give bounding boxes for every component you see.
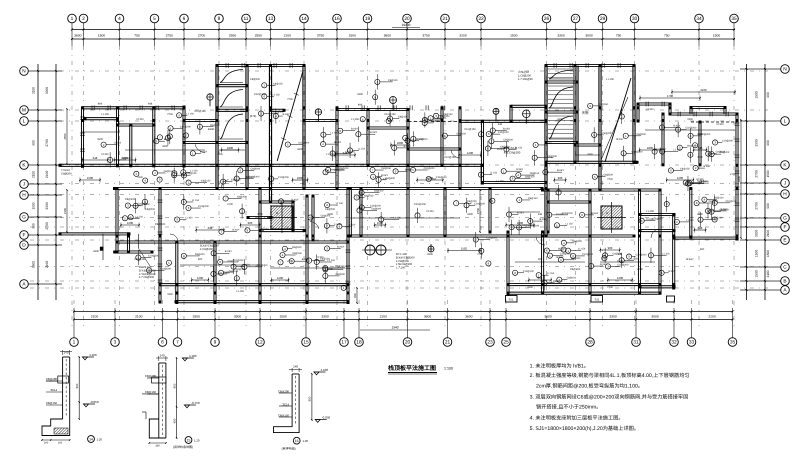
svg-text:3300: 3300 (557, 118, 563, 121)
svg-text:C10@200: C10@200 (273, 111, 284, 114)
svg-text:C10@150: C10@150 (384, 113, 396, 116)
svg-text:L1 150: L1 150 (631, 257, 639, 260)
svg-text:L1 150: L1 150 (136, 215, 144, 218)
svg-text:D: D (22, 243, 26, 249)
svg-text:G: G (783, 216, 787, 222)
svg-text:h=100: h=100 (136, 118, 144, 121)
svg-text:C10@150: C10@150 (444, 156, 456, 159)
svg-text:1500: 1500 (527, 286, 533, 289)
svg-text:3300: 3300 (162, 145, 168, 148)
svg-text:648: 648 (208, 226, 213, 230)
svg-text:2700: 2700 (607, 286, 613, 289)
svg-text:B:X&Y: B:X&Y (370, 131, 377, 134)
svg-text:C8@200: C8@200 (278, 389, 290, 393)
svg-text:21: 21 (445, 340, 451, 346)
svg-text:C8@150: C8@150 (680, 167, 690, 170)
svg-text:900: 900 (32, 223, 36, 229)
svg-text:C8@200: C8@200 (325, 208, 336, 211)
svg-text:B:X&Y: B:X&Y (334, 141, 341, 144)
svg-text:B:X&Y: B:X&Y (348, 223, 355, 226)
svg-text:2700: 2700 (287, 260, 293, 263)
svg-text:1500: 1500 (32, 202, 36, 209)
svg-text:648: 648 (538, 276, 543, 280)
svg-text:C10@200: C10@200 (726, 200, 737, 203)
svg-text:2700: 2700 (755, 202, 759, 210)
svg-text:2100: 2100 (766, 230, 770, 237)
svg-text:1500: 1500 (587, 153, 593, 156)
svg-text:L1 150: L1 150 (114, 142, 122, 145)
svg-text:11: 11 (244, 16, 249, 22)
svg-text:B:X&Y: B:X&Y (668, 270, 675, 273)
svg-text:L1 150: L1 150 (686, 219, 694, 222)
svg-text:C8@150: C8@150 (716, 151, 726, 154)
svg-text:1: 1 (71, 16, 74, 22)
svg-text:3750: 3750 (317, 34, 325, 38)
svg-text:L1 150: L1 150 (328, 259, 336, 262)
svg-text:3300: 3300 (45, 202, 49, 210)
svg-text:1200: 1200 (197, 276, 204, 280)
svg-text:-0.050: -0.050 (90, 400, 99, 404)
svg-text:C8@200: C8@200 (372, 207, 382, 210)
svg-text:C8@200: C8@200 (339, 167, 349, 170)
svg-text:140: 140 (159, 354, 164, 358)
svg-text:C8@200: C8@200 (155, 223, 166, 226)
svg-text:1500: 1500 (755, 250, 759, 258)
svg-text:32: 32 (671, 340, 677, 346)
svg-text:1200: 1200 (677, 176, 684, 180)
svg-text:1500: 1500 (377, 221, 384, 225)
svg-text:486: 486 (98, 103, 103, 106)
svg-text:1500: 1500 (497, 148, 503, 151)
svg-text:140: 140 (293, 365, 298, 369)
svg-text:19: 19 (365, 16, 371, 22)
svg-text:900: 900 (538, 258, 543, 261)
svg-text:1500: 1500 (279, 314, 287, 318)
svg-text:1500: 1500 (755, 270, 759, 278)
svg-text:35: 35 (731, 16, 737, 22)
svg-text:L1 150: L1 150 (662, 252, 670, 255)
svg-text:C8@150: C8@150 (335, 265, 345, 268)
svg-text:2100: 2100 (380, 314, 388, 318)
svg-text:2700: 2700 (730, 173, 736, 176)
svg-text:1:100: 1:100 (444, 367, 453, 371)
svg-text:2550: 2550 (63, 133, 67, 140)
svg-text:21: 21 (442, 16, 448, 22)
svg-text:F: F (23, 233, 26, 239)
svg-text:L1 150: L1 150 (187, 112, 195, 115)
svg-text:900: 900 (558, 176, 563, 180)
svg-text:C8@200: C8@200 (292, 246, 302, 249)
svg-text:L1-150: L1-150 (606, 78, 614, 81)
svg-text:20: 20 (404, 16, 410, 22)
svg-text:C8@200: C8@200 (237, 195, 247, 198)
svg-text:B:X&Y: B:X&Y (557, 169, 564, 172)
svg-text:1500: 1500 (755, 91, 759, 99)
svg-text:33: 33 (689, 340, 695, 346)
svg-text:3300: 3300 (357, 93, 363, 96)
svg-text:1500: 1500 (510, 34, 518, 38)
svg-text:L1 150: L1 150 (547, 272, 555, 275)
svg-text:3300: 3300 (193, 314, 201, 318)
svg-text:1200: 1200 (467, 151, 474, 155)
svg-text:栈顶板平法施工图: 栈顶板平法施工图 (388, 364, 436, 372)
svg-text:2700: 2700 (227, 203, 233, 206)
svg-text:140: 140 (63, 351, 68, 355)
svg-text:L1 150: L1 150 (673, 149, 681, 152)
svg-text:C10@200: C10@200 (257, 264, 268, 267)
svg-text:M: M (22, 108, 26, 114)
svg-text:h=100: h=100 (646, 218, 654, 221)
svg-text:3300: 3300 (327, 213, 333, 216)
svg-text:C8@150: C8@150 (46, 401, 58, 405)
svg-text:C8@150: C8@150 (598, 103, 608, 106)
svg-text:C10@200: C10@200 (198, 205, 209, 208)
svg-text:14: 14 (301, 16, 307, 22)
svg-text:C10@200: C10@200 (160, 267, 171, 270)
svg-text:5: 5 (153, 16, 156, 22)
svg-text:3300: 3300 (697, 133, 703, 136)
svg-text:3600: 3600 (74, 34, 82, 38)
svg-text:C10@200: C10@200 (722, 139, 733, 142)
svg-text:C8@150: C8@150 (530, 172, 540, 175)
svg-text:100: 100 (58, 441, 63, 444)
svg-text:3300: 3300 (737, 175, 741, 182)
svg-text:C8@200: C8@200 (145, 374, 157, 378)
svg-text:B:X&Y: B:X&Y (686, 258, 694, 261)
svg-text:3. 双层双向钢筋网设C6或@200×200双向钢筋网,并与: 3. 双层双向钢筋网设C6或@200×200双向钢筋网,并与受力筋搭接牢固 (530, 393, 689, 400)
svg-text:L1 150: L1 150 (272, 93, 280, 96)
svg-text:1:20: 1:20 (194, 438, 200, 442)
svg-text:3300: 3300 (697, 213, 703, 216)
svg-text:2700: 2700 (476, 207, 480, 214)
svg-text:900: 900 (32, 140, 36, 146)
svg-text:3200: 3200 (459, 34, 467, 38)
svg-text:2100: 2100 (32, 171, 36, 178)
svg-text:C10@200: C10@200 (278, 176, 289, 179)
svg-text:C8@200: C8@200 (440, 115, 450, 118)
svg-text:1200: 1200 (427, 176, 434, 180)
svg-text:C8@200: C8@200 (613, 252, 623, 255)
svg-text:900: 900 (172, 383, 176, 388)
svg-text:900: 900 (766, 92, 770, 98)
svg-text:18: 18 (356, 340, 362, 346)
svg-text:2700: 2700 (45, 139, 49, 147)
svg-text:1500: 1500 (167, 293, 173, 296)
svg-text:16: 16 (295, 439, 299, 443)
svg-text:C8@150: C8@150 (278, 413, 290, 417)
svg-text:C8@200: C8@200 (522, 224, 532, 227)
svg-text:2: 2 (82, 16, 85, 22)
svg-text:3300: 3300 (297, 148, 303, 151)
svg-text:4: 4 (118, 16, 121, 22)
svg-text:C8@150: C8@150 (364, 194, 374, 197)
svg-text:3: 3 (114, 340, 117, 346)
svg-text:B:X&Y: B:X&Y (517, 211, 524, 214)
svg-text:3300: 3300 (467, 213, 473, 216)
svg-text:1200: 1200 (617, 276, 624, 280)
svg-text:C8@150: C8@150 (164, 170, 174, 173)
svg-text:648: 648 (93, 156, 98, 160)
svg-text:L1 150: L1 150 (336, 202, 344, 205)
svg-text:13: 13 (268, 16, 274, 22)
svg-text:H: H (22, 193, 26, 199)
svg-text:N: N (783, 67, 787, 73)
svg-text:B:X&Y: B:X&Y (721, 208, 728, 211)
svg-text:8: 8 (218, 16, 221, 22)
svg-text:C8@200: C8@200 (467, 200, 477, 203)
svg-text:1500: 1500 (87, 176, 94, 180)
svg-text:3600: 3600 (424, 314, 432, 318)
svg-text:900: 900 (700, 248, 705, 251)
svg-text:648: 648 (343, 151, 348, 155)
svg-text:2100: 2100 (766, 270, 770, 277)
svg-text:h=100: h=100 (646, 108, 654, 111)
svg-text:h=100: h=100 (556, 213, 564, 216)
svg-text:3300: 3300 (755, 139, 759, 147)
svg-text:C8@200: C8@200 (61, 172, 72, 175)
svg-text:U: U (276, 211, 278, 215)
svg-text:C8@150: C8@150 (201, 180, 211, 183)
svg-text:C10@150: C10@150 (654, 148, 666, 151)
svg-text:C8@200: C8@200 (570, 268, 581, 271)
svg-text:34: 34 (696, 16, 702, 22)
svg-text:1. 未注明板厚均为 h/B1。: 1. 未注明板厚均为 h/B1。 (530, 362, 589, 369)
svg-text:3300: 3300 (755, 230, 759, 238)
svg-text:C8@150: C8@150 (525, 176, 535, 179)
svg-text:C8@200: C8@200 (699, 181, 709, 184)
svg-text:C10@200: C10@200 (233, 259, 244, 262)
svg-text:1500: 1500 (137, 176, 143, 179)
svg-text:L1 150: L1 150 (334, 223, 342, 226)
svg-text:B:X&Y: B:X&Y (302, 258, 309, 261)
svg-text:C8@200: C8@200 (336, 273, 346, 276)
svg-text:5. SJ1=1800×1800×200(h),J.20为基: 5. SJ1=1800×1800×200(h),J.20为基础上详图。 (530, 425, 639, 432)
svg-text:C8@150: C8@150 (231, 179, 241, 182)
svg-text:4.100: 4.100 (189, 354, 197, 358)
svg-text:L: L (23, 119, 26, 125)
svg-text:1.7:100@20: 1.7:100@20 (518, 78, 533, 81)
svg-text:1800: 1800 (517, 221, 524, 225)
svg-text:2700: 2700 (198, 34, 206, 38)
svg-text:900: 900 (248, 221, 253, 225)
svg-text:B:X&Y: B:X&Y (540, 218, 547, 221)
svg-text:1800: 1800 (647, 146, 654, 150)
svg-text:C8@200: C8@200 (250, 78, 261, 81)
svg-text:3300: 3300 (321, 314, 329, 318)
svg-text:C8@200: C8@200 (125, 198, 136, 201)
svg-text:2100: 2100 (45, 171, 49, 179)
svg-text:B: B (783, 279, 786, 285)
svg-text:J.7B上L0: J.7B上L0 (518, 70, 530, 74)
svg-text:L1-150: L1-150 (101, 113, 109, 116)
svg-text:648: 648 (148, 103, 153, 106)
svg-text:B:X&Y: B:X&Y (673, 124, 680, 127)
svg-text:27: 27 (573, 16, 579, 22)
svg-text:B:X&Y: B:X&Y (704, 165, 711, 168)
svg-text:2100: 2100 (708, 314, 716, 318)
svg-text:C8@200: C8@200 (210, 124, 220, 127)
svg-text:1500: 1500 (766, 250, 770, 257)
svg-text:4.100: 4.100 (89, 353, 97, 357)
svg-text:C10@200: C10@200 (636, 254, 647, 257)
svg-text:14: 14 (89, 437, 93, 441)
svg-text:B:X&Y: B:X&Y (503, 128, 510, 131)
svg-text:2700: 2700 (637, 268, 643, 271)
svg-text:900: 900 (198, 258, 203, 261)
svg-text:2100: 2100 (32, 87, 36, 94)
svg-text:2700: 2700 (217, 153, 223, 156)
svg-text:C8@200: C8@200 (602, 132, 612, 135)
svg-text:3300: 3300 (609, 314, 617, 318)
svg-text:C8@200: C8@200 (138, 203, 148, 206)
svg-text:L1 150: L1 150 (490, 172, 498, 175)
svg-text:3300: 3300 (45, 87, 49, 95)
svg-text:2700: 2700 (697, 156, 703, 159)
svg-text:F: F (784, 225, 787, 231)
svg-text:B:X&Y: B:X&Y (616, 138, 624, 141)
svg-text:C8@150: C8@150 (456, 133, 466, 136)
svg-text:SJ1: SJ1 (509, 298, 514, 302)
svg-text:L1 150: L1 150 (192, 199, 200, 202)
svg-text:28: 28 (587, 340, 593, 346)
svg-text:750: 750 (616, 34, 622, 38)
svg-text:C8@150: C8@150 (567, 277, 577, 280)
svg-text:240: 240 (155, 444, 160, 447)
svg-text:3300: 3300 (234, 314, 242, 318)
svg-text:2550: 2550 (229, 34, 237, 38)
svg-text:C8@200: C8@200 (503, 138, 513, 141)
svg-text:22: 22 (478, 16, 484, 22)
svg-text:N: N (22, 69, 26, 75)
svg-text:12: 12 (257, 340, 263, 346)
svg-text:h=100: h=100 (716, 123, 724, 126)
svg-text:C10@200: C10@200 (582, 253, 593, 256)
svg-text:20: 20 (405, 340, 411, 346)
svg-text:2700: 2700 (607, 178, 613, 181)
svg-text:1700: 1700 (667, 94, 674, 98)
svg-text:(另详构造详图): (另详构造详图) (173, 445, 193, 449)
svg-text:M8C.5/L8: M8C.5/L8 (503, 146, 516, 150)
svg-text:35: 35 (730, 340, 736, 346)
svg-text:3750: 3750 (422, 34, 430, 38)
svg-text:16: 16 (334, 16, 340, 22)
svg-text:1: 1 (73, 340, 76, 346)
svg-text:L1 150: L1 150 (578, 248, 586, 251)
svg-text:C10@150: C10@150 (194, 110, 206, 113)
svg-text:L1-150: L1-150 (236, 290, 244, 293)
svg-text:C8@200: C8@200 (709, 200, 719, 203)
svg-text:h=100: h=100 (101, 153, 109, 156)
svg-text:4. 未注明板支座附加三层板平法施工图。: 4. 未注明板支座附加三层板平法施工图。 (530, 415, 624, 422)
svg-text:900: 900 (308, 396, 312, 401)
svg-text:486: 486 (358, 104, 363, 107)
svg-text:1.7:100: 1.7:100 (396, 267, 405, 270)
svg-text:2. 板混凝土强度等级,钢筋与梁相同4L.1,板顶标高4.0: 2. 板混凝土强度等级,钢筋与梁相同4L.1,板顶标高4.00,上下层钢筋均匀 (530, 372, 690, 379)
svg-text:750: 750 (134, 34, 140, 38)
svg-text:B:X&Y: B:X&Y (516, 168, 523, 171)
svg-text:C8@200: C8@200 (547, 155, 557, 158)
svg-text:25: 25 (503, 340, 509, 346)
svg-text:-0.750: -0.750 (191, 401, 200, 405)
svg-text:900: 900 (766, 203, 770, 209)
svg-text:错开搭接,且不小于250mm。: 错开搭接,且不小于250mm。 (536, 404, 601, 411)
svg-text:C10@200: C10@200 (249, 176, 260, 179)
svg-text:L1-150: L1-150 (496, 180, 504, 183)
svg-text:C10@200: C10@200 (486, 237, 497, 240)
svg-text:(67b): (67b) (250, 114, 257, 118)
svg-text:B:X&Y: B:X&Y (232, 229, 239, 232)
svg-text:2100: 2100 (700, 88, 707, 92)
svg-text:7: 7 (176, 340, 179, 346)
svg-text:C8@150: C8@150 (273, 82, 283, 85)
svg-text:C10@200: C10@200 (180, 125, 191, 128)
svg-text:(另详构造): (另详构造) (282, 447, 296, 451)
svg-text:B:X&Y: B:X&Y (200, 150, 207, 153)
svg-text:200: 200 (44, 441, 49, 444)
svg-text:C10@200: C10@200 (436, 176, 447, 179)
svg-text:2700: 2700 (287, 98, 293, 101)
svg-text:4.100: 4.100 (321, 368, 329, 372)
svg-text:C10@200: C10@200 (186, 172, 197, 175)
svg-text:C10@200: C10@200 (617, 263, 628, 266)
svg-text:648: 648 (498, 123, 503, 126)
svg-text:3000: 3000 (651, 314, 659, 318)
svg-text:6: 6 (161, 340, 164, 346)
svg-text:C8@200: C8@200 (195, 253, 205, 256)
svg-text:3C14: 3C14 (282, 402, 289, 406)
svg-text:C8@150: C8@150 (145, 390, 157, 394)
svg-text:2100: 2100 (284, 34, 292, 38)
svg-text:C10@200: C10@200 (686, 127, 697, 130)
svg-text:C10@200: C10@200 (148, 255, 159, 258)
svg-text:C: C (783, 265, 787, 271)
svg-text:U: U (606, 211, 608, 215)
svg-text:C8@200: C8@200 (385, 177, 395, 180)
svg-text:L1 150: L1 150 (331, 132, 339, 135)
svg-text:1200: 1200 (277, 276, 284, 280)
svg-text:C10@150: C10@150 (464, 128, 476, 131)
svg-text:h=100: h=100 (426, 210, 434, 213)
svg-text:E: E (783, 238, 786, 244)
svg-text:B:X&Y: B:X&Y (225, 250, 232, 253)
svg-text:29: 29 (600, 16, 606, 22)
svg-text:3600: 3600 (465, 314, 473, 318)
svg-text:3300: 3300 (97, 138, 103, 141)
svg-text:2700: 2700 (45, 222, 49, 230)
svg-text:1:C8@200: 1:C8@200 (200, 248, 213, 251)
svg-text:1200: 1200 (127, 221, 134, 225)
svg-text:648: 648 (538, 213, 543, 216)
svg-text:900: 900 (75, 383, 79, 388)
svg-text:C10@200: C10@200 (523, 270, 534, 273)
svg-text:L1-150: L1-150 (351, 118, 359, 121)
svg-text:C8@150: C8@150 (374, 190, 384, 193)
svg-text:2100: 2100 (91, 314, 99, 318)
svg-text:C8@200: C8@200 (553, 280, 563, 283)
svg-text:15: 15 (303, 340, 309, 346)
svg-text:B:X&Y: B:X&Y (291, 198, 298, 201)
svg-text:900: 900 (353, 293, 357, 298)
svg-text:L1-150: L1-150 (646, 210, 654, 213)
svg-text:3750: 3750 (166, 34, 174, 38)
svg-text:2700: 2700 (755, 170, 759, 178)
svg-text:C10@200: C10@200 (498, 131, 509, 134)
svg-text:1800: 1800 (397, 141, 404, 145)
svg-text:SJ1: SJ1 (595, 298, 600, 302)
svg-text:1:20: 1:20 (303, 439, 309, 443)
svg-text:3300: 3300 (427, 253, 433, 256)
svg-text:B:X&Y: B:X&Y (351, 128, 358, 131)
